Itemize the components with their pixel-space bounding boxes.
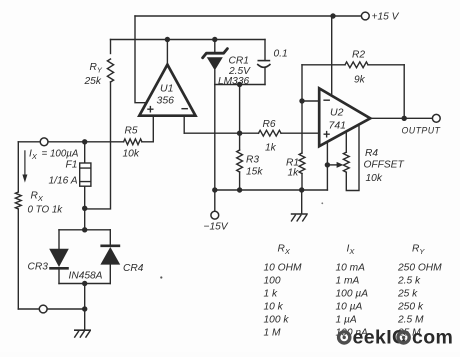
svg-text:1 M: 1 M <box>264 328 281 339</box>
svg-text:R4: R4 <box>365 148 378 159</box>
svg-text:−15V: −15V <box>204 222 229 233</box>
svg-text:741: 741 <box>329 120 347 132</box>
svg-text:−: − <box>323 93 331 108</box>
svg-text:com: com <box>412 327 453 349</box>
svg-text:U1: U1 <box>160 83 173 95</box>
svg-text:= 100µA: = 100µA <box>42 149 79 160</box>
svg-text:2.5 M: 2.5 M <box>397 315 424 326</box>
svg-text:OFFSET: OFFSET <box>364 160 405 171</box>
svg-text:100 k: 100 k <box>264 315 290 326</box>
svg-text:10k: 10k <box>123 149 140 160</box>
svg-text:1 mA: 1 mA <box>336 276 360 287</box>
svg-text:250 OHM: 250 OHM <box>397 263 442 274</box>
svg-text:R5: R5 <box>125 126 138 137</box>
svg-text:1/16 A: 1/16 A <box>49 175 78 186</box>
svg-text:10 k: 10 k <box>264 302 284 313</box>
svg-text:2.5 k: 2.5 k <box>397 276 421 287</box>
svg-text:CR1: CR1 <box>229 56 249 67</box>
svg-text:+15 V: +15 V <box>372 12 400 23</box>
svg-text:10 µA: 10 µA <box>336 302 363 313</box>
svg-text:+: + <box>147 103 155 117</box>
svg-text:LM336: LM336 <box>218 76 249 87</box>
svg-text:CR4: CR4 <box>123 263 144 274</box>
svg-text:10k: 10k <box>366 173 383 184</box>
svg-text:250 k: 250 k <box>397 302 424 313</box>
svg-text:356: 356 <box>157 95 175 107</box>
svg-text:F1: F1 <box>66 160 78 171</box>
svg-text:R6: R6 <box>263 119 276 130</box>
svg-text:1 µA: 1 µA <box>336 315 357 326</box>
svg-text:25k: 25k <box>84 76 102 87</box>
svg-text:U2: U2 <box>330 107 344 119</box>
svg-text:10 mA: 10 mA <box>336 263 366 274</box>
svg-text:9k: 9k <box>354 75 366 86</box>
svg-text:1 k: 1 k <box>264 289 278 300</box>
svg-text:OUTPUT: OUTPUT <box>402 126 441 136</box>
svg-text:0 TO 1k: 0 TO 1k <box>28 205 64 216</box>
svg-text:R3: R3 <box>246 155 259 166</box>
svg-text:100: 100 <box>264 276 281 287</box>
svg-text:1k: 1k <box>265 143 277 154</box>
svg-text:0.1: 0.1 <box>274 49 288 60</box>
svg-text:CR3: CR3 <box>28 262 49 273</box>
svg-text:R2: R2 <box>352 50 365 61</box>
svg-text:−: − <box>181 101 189 116</box>
svg-text:10 OHM: 10 OHM <box>264 263 302 274</box>
svg-text:1k: 1k <box>288 168 300 179</box>
svg-text:25 k: 25 k <box>397 289 418 300</box>
svg-text:15k: 15k <box>246 167 263 178</box>
svg-text:100 µA: 100 µA <box>336 289 369 300</box>
svg-text:IN458A: IN458A <box>69 271 103 282</box>
